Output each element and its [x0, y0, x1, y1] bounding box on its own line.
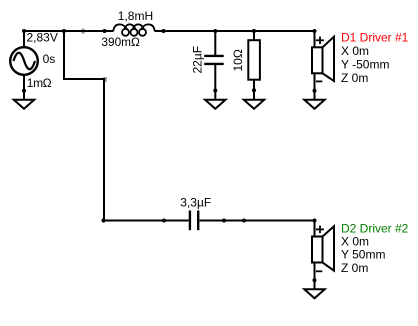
svg-text:10Ω: 10Ω — [231, 49, 245, 71]
svg-text:D1 Driver #1: D1 Driver #1 — [341, 31, 409, 45]
svg-text:1,8mH: 1,8mH — [118, 9, 153, 23]
svg-text:1mΩ: 1mΩ — [27, 76, 52, 90]
svg-text:X 0m: X 0m — [341, 44, 369, 58]
svg-text:390mΩ: 390mΩ — [101, 35, 140, 49]
svg-text:2,83V: 2,83V — [27, 31, 58, 45]
svg-text:Z 0m: Z 0m — [341, 261, 368, 275]
svg-text:22µF: 22µF — [191, 46, 205, 74]
svg-text:Y 50mm: Y 50mm — [341, 247, 385, 261]
svg-text:0s: 0s — [43, 52, 56, 66]
svg-text:X 0m: X 0m — [341, 234, 369, 248]
svg-text:D2 Driver #2: D2 Driver #2 — [341, 221, 409, 235]
svg-text:Y -50mm: Y -50mm — [341, 58, 389, 72]
svg-text:Z 0m: Z 0m — [341, 71, 368, 85]
svg-text:3,3µF: 3,3µF — [180, 196, 211, 210]
